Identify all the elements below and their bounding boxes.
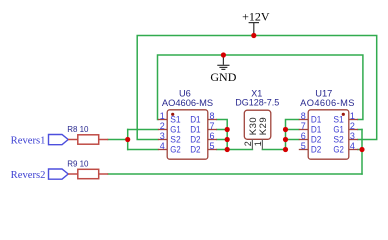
svg-text:+12V: +12V — [242, 10, 270, 24]
svg-text:Revers2: Revers2 — [11, 170, 46, 181]
svg-text:D2: D2 — [190, 145, 200, 155]
svg-text:10: 10 — [80, 125, 89, 134]
svg-text:2: 2 — [160, 121, 165, 131]
svg-text:S1: S1 — [170, 115, 180, 125]
svg-text:D2: D2 — [311, 135, 321, 145]
svg-text:Revers1: Revers1 — [11, 136, 46, 147]
svg-text:AO4606-MS: AO4606-MS — [162, 98, 213, 108]
svg-text:4: 4 — [160, 141, 165, 151]
svg-text:3: 3 — [350, 131, 355, 141]
svg-text:8: 8 — [301, 111, 306, 121]
svg-text:K29: K29 — [258, 117, 269, 136]
svg-text:R8: R8 — [67, 125, 78, 134]
svg-text:8: 8 — [210, 111, 215, 121]
svg-text:D2: D2 — [190, 135, 200, 145]
svg-text:R9: R9 — [67, 160, 78, 169]
svg-text:5: 5 — [301, 141, 306, 151]
svg-text:10: 10 — [80, 160, 89, 169]
svg-text:D2: D2 — [311, 145, 321, 155]
svg-text:7: 7 — [301, 121, 306, 131]
svg-text:3: 3 — [160, 131, 165, 141]
svg-text:D1: D1 — [190, 115, 200, 125]
svg-text:5: 5 — [210, 141, 215, 151]
svg-text:G2: G2 — [333, 145, 343, 155]
svg-text:1: 1 — [350, 111, 355, 121]
svg-text:S2: S2 — [333, 135, 343, 145]
svg-text:S1: S1 — [333, 115, 343, 125]
svg-text:G2: G2 — [170, 145, 180, 155]
svg-text:6: 6 — [210, 131, 215, 141]
svg-text:GND: GND — [210, 70, 236, 84]
svg-text:S2: S2 — [170, 135, 180, 145]
svg-text:D1: D1 — [311, 115, 321, 125]
svg-text:2: 2 — [243, 141, 253, 146]
svg-text:4: 4 — [350, 141, 355, 151]
svg-text:7: 7 — [210, 121, 215, 131]
svg-text:1: 1 — [253, 141, 263, 146]
svg-text:2: 2 — [350, 121, 355, 131]
svg-text:G1: G1 — [333, 125, 343, 135]
svg-text:AO4606-MS: AO4606-MS — [300, 98, 355, 108]
svg-text:D1: D1 — [311, 125, 321, 135]
svg-text:DG128-7.5: DG128-7.5 — [235, 98, 279, 108]
svg-text:6: 6 — [301, 131, 306, 141]
svg-text:1: 1 — [160, 111, 165, 121]
svg-text:G1: G1 — [170, 125, 180, 135]
svg-text:D1: D1 — [190, 125, 200, 135]
